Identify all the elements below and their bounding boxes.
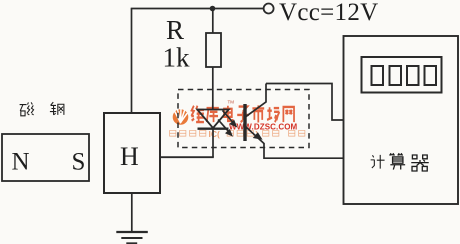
light arrow 1	[223, 111, 237, 127]
ground symbol	[116, 231, 148, 233]
svg-text:1k: 1k	[163, 43, 191, 73]
terminal: Vcc open circle	[264, 4, 274, 14]
display digit 4	[425, 66, 437, 85]
wire: Vcc top rail	[131, 8, 263, 10]
label: magnet 磁钢	[20, 102, 64, 116]
resistor R 1k body	[206, 33, 221, 67]
label: computer 计算器	[371, 153, 429, 171]
display digit 2	[390, 66, 402, 85]
svg-text:IC(: IC(	[209, 129, 221, 139]
svg-text:R: R	[166, 15, 184, 45]
optocoupler U1 dashed package outline	[178, 90, 309, 148]
light arrow 2	[218, 120, 232, 136]
svg-text:WWW.DZSC.COM: WWW.DZSC.COM	[229, 122, 298, 131]
svg-text:S: S	[72, 149, 86, 176]
wire: resistor to LED anode	[212, 67, 214, 110]
svg-text:H: H	[120, 142, 139, 171]
display digit 3	[407, 66, 419, 85]
display digit 1	[372, 66, 384, 85]
svg-text:N: N	[12, 149, 30, 176]
watermark logo disc	[173, 109, 189, 125]
wire: emitter down and right to computer box	[264, 143, 344, 158]
wire: junction to resistor R	[212, 9, 214, 34]
LED of optocoupler (anode top, cathode bottom)	[197, 110, 228, 129]
wire: Hall element to ground	[131, 193, 133, 232]
permanent magnet bar	[2, 134, 89, 181]
wire: LED cathode down	[212, 129, 214, 158]
watermark big text 维库电子市场网	[191, 105, 294, 122]
watermark small text row	[170, 130, 305, 136]
svg-text:Vcc=12V: Vcc=12V	[279, 0, 379, 26]
phototransistor Q1 base bar	[243, 104, 246, 141]
wire: Hall output to LED cathode	[160, 156, 214, 158]
svg-text:TM: TM	[228, 100, 235, 105]
computer display window	[362, 57, 442, 93]
phototransistor collector lead	[246, 84, 266, 117]
wire: collector to computer box	[266, 84, 344, 121]
computer box	[344, 36, 459, 204]
phototransistor emitter lead with arrow	[246, 127, 264, 144]
Hall element H box	[104, 113, 160, 193]
node: junction at resistor top	[210, 6, 216, 12]
wire: left vertical to Hall element	[131, 9, 133, 114]
